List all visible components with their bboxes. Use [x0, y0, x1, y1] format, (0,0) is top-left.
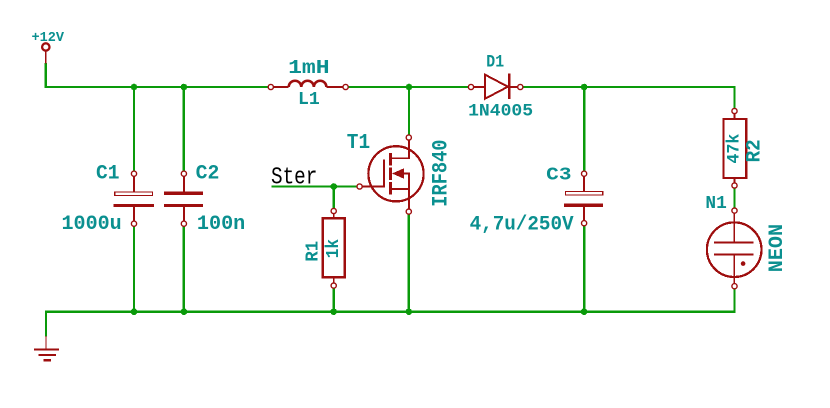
svg-text:D1: D1 [486, 53, 504, 73]
svg-text:L1: L1 [298, 88, 320, 110]
wire +12V to top bus [46, 63, 271, 87]
wire top bus right [520, 87, 734, 111]
junction gate R1 [330, 183, 337, 190]
wire R1 bottom [333, 286, 335, 312]
wire top bus middle [346, 86, 471, 88]
junction bottom bus C2 [181, 308, 188, 315]
svg-text:4,7u/250V: 4,7u/250V [470, 214, 574, 237]
wire C2 top drop [183, 87, 185, 174]
junction top bus C3 [581, 84, 588, 91]
wire bottom bus [46, 286, 735, 336]
capacitor C2 100n [164, 163, 245, 236]
svg-text:+12V: +12V [32, 31, 65, 46]
junction top bus C1 [131, 84, 138, 91]
capacitor C3 4,7u/250V [470, 165, 604, 237]
capacitor C1 1000u [62, 163, 154, 236]
junction top bus C2 [181, 84, 188, 91]
svg-text:R1: R1 [303, 241, 324, 262]
wire R1 top drop [333, 187, 335, 212]
svg-text:1mH: 1mH [288, 57, 330, 79]
junction bottom bus T1 [406, 308, 413, 315]
wire C3 top drop [583, 87, 585, 174]
svg-text:NEON: NEON [766, 224, 789, 272]
resistor R2 47k [724, 108, 767, 188]
svg-text:C1: C1 [96, 163, 120, 186]
svg-text:C2: C2 [196, 163, 220, 186]
wire C1 top drop [133, 87, 135, 174]
wire T1 drain drop [408, 87, 410, 138]
svg-text:N1: N1 [705, 194, 726, 214]
svg-text:C3: C3 [546, 165, 571, 186]
svg-text:1N4005: 1N4005 [468, 102, 533, 122]
svg-text:47k: 47k [726, 134, 745, 164]
svg-text:R2: R2 [744, 139, 767, 162]
wire T1 source drop [408, 212, 410, 312]
junction bottom bus C3 [581, 308, 588, 315]
junction bottom bus C1 [131, 308, 138, 315]
diode D1 1N4005 [468, 53, 533, 122]
wire C3 bottom [583, 223, 585, 312]
svg-text:Ster: Ster [271, 165, 317, 192]
svg-text:IRF840: IRF840 [429, 140, 454, 207]
svg-text:1k: 1k [324, 239, 344, 259]
resistor R1 1k [303, 208, 345, 288]
inductor L1 [268, 57, 348, 110]
transistor T1 IRF840 mosfet [347, 131, 454, 214]
power symbol +12V [32, 31, 65, 64]
junction top bus T1 drain [406, 84, 413, 91]
svg-text:1000u: 1000u [62, 213, 122, 236]
wire R2 to N1 [733, 186, 735, 211]
svg-text:100n: 100n [197, 213, 245, 236]
neon lamp N1 [705, 194, 789, 289]
svg-text:T1: T1 [347, 131, 370, 155]
ground [34, 336, 59, 360]
wire Ster gate net [271, 185, 359, 187]
wire C2 bottom [183, 224, 185, 312]
wire C1 bottom [133, 224, 135, 312]
junction bottom bus R1 [330, 308, 337, 315]
